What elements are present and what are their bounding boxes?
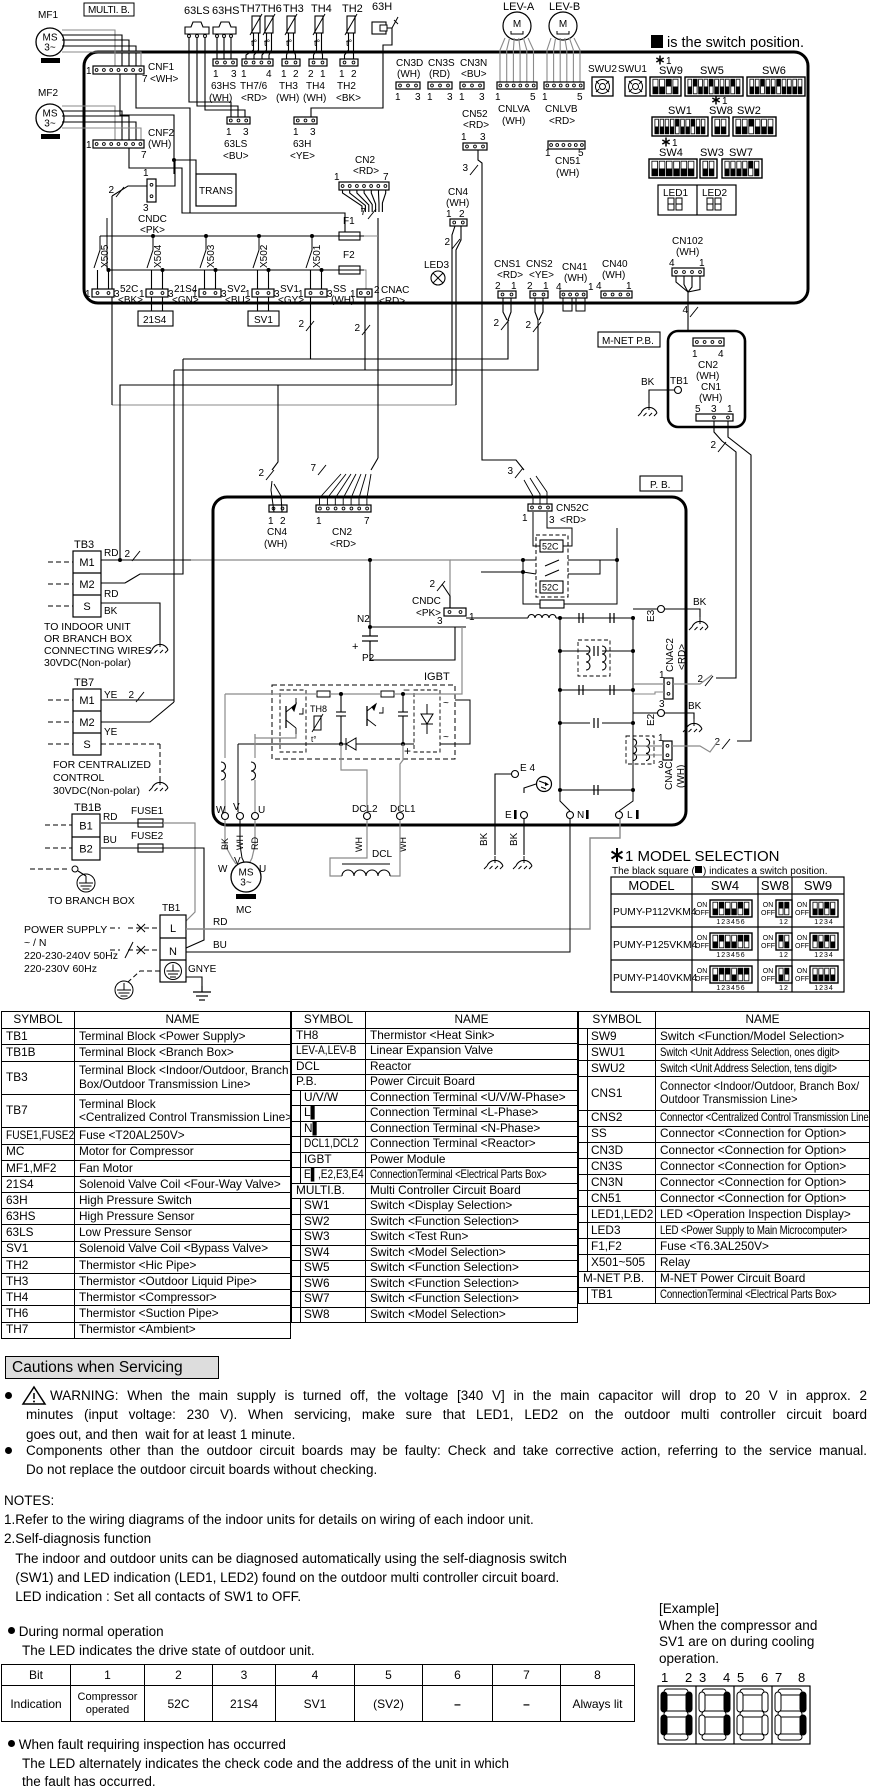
coil U [251, 762, 256, 780]
svg-text:L: L [170, 923, 176, 935]
wire TB7 vertical [173, 370, 175, 702]
svg-text:<RD>: <RD> [330, 539, 356, 550]
wire CNS1-a [503, 298, 507, 320]
IGBT resistor b [381, 691, 394, 697]
svg-text:2: 2 [493, 318, 499, 329]
svg-text:1: 1 [143, 168, 149, 179]
wire CN2t [371, 190, 375, 212]
svg-text:WH: WH [354, 837, 364, 852]
wire MF2-2 [62, 111, 122, 140]
wire MF1-4 [62, 46, 136, 66]
wire LEV-B [565, 38, 567, 82]
connector SS [305, 289, 327, 297]
svg-text:(WH): (WH) [276, 93, 299, 104]
svg-text:LED1: LED1 [663, 188, 688, 199]
svg-text:5: 5 [530, 92, 536, 103]
ground TB7 [149, 778, 168, 791]
svg-text:(WH): (WH) [676, 765, 687, 788]
svg-text:3: 3 [143, 203, 149, 214]
transformer TRANS [196, 174, 236, 206]
svg-text:1: 1 [461, 132, 467, 143]
svg-text:123456: 123456 [716, 952, 745, 959]
svg-text:1: 1 [427, 92, 433, 103]
connector TH3 (WH) [282, 59, 300, 66]
LED3 [431, 271, 445, 285]
example digit labels [661, 1670, 805, 1685]
wire thermistor [254, 33, 259, 59]
terminal block TB1B [72, 814, 100, 860]
wire CNS2 to TB7 [174, 320, 538, 370]
junction SV2 bus [214, 268, 218, 272]
wire LEV-A [500, 38, 505, 82]
svg-text:<RD>: <RD> [463, 120, 489, 131]
wire MF2-1 [62, 106, 115, 140]
svg-text:GNYE: GNYE [188, 964, 217, 975]
wire E2 left [633, 712, 657, 714]
terminal U [252, 813, 259, 820]
connector CNS2 [530, 291, 548, 298]
wire CNS2-a [535, 298, 538, 320]
connector 21S4 [146, 289, 168, 297]
wire count mark [722, 739, 730, 749]
svg-text:3: 3 [549, 515, 555, 526]
fan motor MF2 [36, 104, 64, 132]
ground E2 [683, 719, 702, 732]
connector 63H (YE) [294, 117, 317, 124]
wire count mark [690, 307, 698, 317]
DIP switch SW9 [650, 77, 681, 96]
svg-text:PUMY-P112VKM4: PUMY-P112VKM4 [613, 907, 697, 918]
svg-text:OFF: OFF [795, 976, 809, 983]
svg-text:OFF: OFF [795, 943, 809, 950]
svg-text:63H: 63H [372, 1, 392, 13]
wire CNDC down [111, 196, 113, 405]
svg-text:OR BRANCH BOX: OR BRANCH BOX [44, 633, 132, 645]
wire TB7 M2 [101, 702, 174, 722]
svg-text:~ / N: ~ / N [24, 937, 46, 949]
junction 52C bus [107, 268, 111, 272]
svg-text:1: 1 [339, 69, 345, 80]
svg-text:ON: ON [797, 935, 808, 942]
svg-text:SW1: SW1 [668, 105, 692, 117]
wire U link [255, 734, 296, 738]
wire U [254, 734, 256, 758]
svg-text:4: 4 [682, 305, 688, 316]
svg-text:BU: BU [213, 940, 227, 951]
capacitor C6 [594, 718, 598, 728]
svg-text:CNAC: CNAC [381, 285, 409, 296]
terminal EI [521, 812, 528, 819]
wire W2 [224, 780, 226, 812]
seven segment indicator [737, 1689, 768, 1740]
wire E4 gnd [495, 774, 511, 855]
svg-text:CN2: CN2 [698, 360, 718, 371]
svg-text:CNF1: CNF1 [148, 62, 175, 73]
fuse F2 [335, 266, 364, 274]
svg-text:1: 1 [511, 281, 517, 292]
junction SV1 bus [267, 268, 271, 272]
svg-text:B1: B1 [79, 821, 92, 833]
wire LEV-A [528, 38, 534, 82]
DIP switch model PUMY-P112VKM4 [776, 900, 792, 917]
wire SS down [310, 297, 312, 359]
relay bus lower right [363, 270, 366, 289]
svg-text:SW4: SW4 [659, 147, 683, 159]
connector CN102 [672, 268, 704, 276]
svg-text:~: ~ [443, 698, 449, 709]
seven segment digit [668, 198, 674, 210]
rotary switch SWU1 [625, 77, 646, 96]
connector TH4 (WH) [309, 59, 327, 66]
svg-text:3: 3 [310, 127, 316, 138]
bit table [1, 1664, 635, 1722]
svg-text:SWU1: SWU1 [618, 64, 647, 75]
svg-text:(WH): (WH) [264, 539, 287, 550]
svg-text:YE: YE [104, 727, 118, 738]
junction [631, 649, 635, 653]
wire U to MC [250, 820, 255, 862]
svg-text:YE: YE [104, 690, 118, 701]
ground TB3 [149, 640, 168, 653]
svg-text:1: 1 [661, 1670, 668, 1685]
svg-text:30VDC(Non-polar): 30VDC(Non-polar) [44, 657, 131, 669]
svg-text:1: 1 [350, 289, 356, 300]
junction [631, 788, 635, 792]
wire LEV-B [554, 38, 556, 82]
wire CNS1-b [508, 298, 511, 320]
svg-text:1: 1 [298, 289, 304, 300]
svg-text:5: 5 [737, 1670, 744, 1685]
wire DCL2 down [330, 820, 367, 876]
svg-text:CNS2: CNS2 [526, 259, 553, 270]
svg-text:123456: 123456 [716, 985, 745, 992]
svg-text:t°: t° [346, 38, 353, 48]
svg-text:<RD>: <RD> [677, 644, 688, 670]
board M-NET P.B. outline [668, 331, 745, 427]
junction [615, 558, 619, 562]
junction [339, 692, 343, 696]
svg-text:BK: BK [479, 832, 490, 846]
wire V [237, 744, 239, 758]
svg-text:1: 1 [139, 289, 145, 300]
connector CNLVA [497, 82, 537, 89]
wire relay to SV1 [257, 270, 259, 289]
svg-text:CN51: CN51 [555, 156, 581, 167]
TB3 dashes [48, 562, 73, 606]
wire CNAC1 a [633, 745, 663, 747]
wire count mark [266, 470, 274, 480]
junction [521, 570, 525, 574]
wire CN1-CNAC2 [714, 421, 736, 678]
TB1 gnd dash [128, 971, 160, 982]
wire CN2t [382, 190, 385, 212]
wire CN2t [343, 190, 363, 212]
junction [631, 688, 635, 692]
IGBT transistor 2 [367, 704, 383, 726]
thermistor TH6 symbol [263, 14, 275, 48]
svg-text:(WH): (WH) [696, 371, 719, 382]
svg-text:CN4: CN4 [267, 527, 287, 538]
junction [401, 742, 405, 746]
wire CN52 to CN52C [478, 150, 524, 470]
relay bus upper [100, 235, 339, 237]
junction [172, 158, 176, 162]
wire MF2-3 [62, 116, 129, 140]
svg-text:52C: 52C [542, 583, 559, 593]
svg-text:POWER SUPPLY: POWER SUPPLY [24, 924, 107, 936]
relay X505 [94, 236, 111, 268]
svg-text:S: S [83, 739, 90, 751]
svg-text:SV1: SV1 [254, 315, 273, 326]
svg-text:WH: WH [235, 835, 245, 850]
svg-text:TH7: TH7 [240, 3, 261, 15]
svg-text:2: 2 [293, 69, 299, 80]
svg-text:TH4: TH4 [306, 81, 325, 92]
svg-text:SWU2: SWU2 [588, 64, 617, 75]
wire bus to 21S4 [162, 270, 164, 289]
52C wiring [481, 512, 617, 604]
relay X504 [147, 236, 164, 268]
transformer T1 secondary [602, 646, 606, 670]
svg-text:2: 2 [354, 323, 360, 334]
connector CN3S [428, 82, 452, 89]
expansion valve motor LEV-A [503, 12, 531, 40]
connector CN2 M-NET [693, 338, 724, 346]
DIP switch model PUMY-P112VKM4 [710, 900, 752, 917]
svg-text:TH8: TH8 [310, 704, 327, 714]
relay bus upper right [363, 235, 378, 237]
wire N2 top [369, 560, 371, 620]
MF2 mount [41, 134, 60, 139]
svg-text:F1: F1 [343, 216, 355, 227]
svg-text:3~: 3~ [44, 119, 56, 130]
svg-text:2: 2 [351, 69, 357, 80]
svg-text:(WH): (WH) [148, 139, 171, 150]
connector 52C [92, 289, 114, 297]
relay X501 [306, 236, 323, 268]
svg-text:2: 2 [429, 579, 435, 590]
label box SV1 [248, 311, 279, 326]
svg-text:MF2: MF2 [38, 88, 58, 99]
connector CNS1 [498, 291, 516, 298]
svg-text:3: 3 [699, 1670, 706, 1685]
wire TB3 S [101, 603, 160, 640]
example display frame [658, 1686, 810, 1744]
DIP switch model PUMY-P140VKM4 [810, 966, 838, 983]
svg-text:3~: 3~ [44, 43, 56, 54]
CN2 PB fan wire [351, 474, 361, 505]
ground M-NET [638, 403, 657, 416]
wire count mark [515, 468, 523, 478]
connector CNLVB [544, 82, 584, 89]
junction [558, 721, 562, 725]
fuse FUSE2 [134, 844, 167, 852]
wire LEV-B [559, 38, 561, 82]
terminal block TB7 [73, 689, 101, 755]
wire N2 up [369, 620, 371, 627]
wire CNAC2 a [633, 683, 664, 685]
svg-text:OFF: OFF [695, 910, 709, 917]
terminal W [222, 813, 229, 820]
MF1 mount [41, 58, 60, 63]
wire DC link 2 [450, 559, 523, 561]
svg-text:is the switch position.: is the switch position. [667, 35, 804, 51]
svg-text:RD: RD [104, 589, 118, 600]
svg-text:TH2: TH2 [337, 81, 356, 92]
wire thermistor [246, 33, 254, 59]
junction [558, 788, 562, 792]
connector CNDC top [147, 179, 156, 202]
connector CNDC P.B. [444, 608, 466, 616]
svg-text:7: 7 [360, 207, 366, 218]
svg-text:1: 1 [446, 209, 452, 220]
wire CN2t [357, 190, 369, 212]
svg-text:1234: 1234 [814, 952, 834, 959]
svg-text:SW3: SW3 [700, 147, 724, 159]
svg-text:2: 2 [374, 285, 380, 296]
svg-text:<WH>: <WH> [150, 74, 179, 85]
wire MF2-4 [62, 122, 136, 140]
svg-text:(WH): (WH) [699, 393, 722, 404]
svg-text:CNDC: CNDC [138, 214, 167, 225]
CN2 PB fan wire [327, 474, 346, 505]
label box MULTI.B. [84, 3, 134, 16]
svg-text:<RD>: <RD> [241, 93, 267, 104]
junction [631, 616, 635, 620]
svg-text:2: 2 [128, 690, 134, 701]
svg-text:(WH): (WH) [446, 198, 469, 209]
node N2 [368, 625, 372, 629]
relay bus lower [107, 269, 339, 271]
wire V to MC [240, 820, 244, 862]
wire to CN2 PB [371, 458, 378, 470]
wire MF1-5 [62, 52, 141, 66]
svg-text:M: M [513, 19, 521, 30]
wire count mark [318, 465, 326, 475]
wire DCL2 up [341, 744, 367, 812]
transformer T1 primary [586, 646, 590, 670]
CN2 PB fan wire [335, 474, 351, 505]
svg-text:SW6: SW6 [762, 65, 786, 77]
svg-text:SW4: SW4 [711, 878, 739, 893]
connector CNAC2 [664, 678, 673, 699]
svg-text:3: 3 [415, 92, 421, 103]
connector CN3D [396, 82, 420, 89]
wire E2 gnd [665, 713, 694, 719]
wire thermistor [262, 33, 267, 59]
svg-text:2: 2 [308, 69, 314, 80]
svg-text:E3: E3 [646, 609, 657, 622]
wire CNS2-b [539, 298, 543, 320]
wire LEV-A [523, 38, 526, 82]
svg-text:TB1B: TB1B [74, 802, 102, 814]
wire CN2t [364, 190, 372, 212]
junction 21S4 bus [161, 268, 165, 272]
TB7 dashes [48, 700, 160, 778]
IGBT resistor a [317, 691, 330, 697]
svg-text:CN3D: CN3D [396, 58, 423, 69]
DIP switch SW2 [733, 117, 776, 136]
svg-text:8: 8 [798, 1670, 805, 1685]
svg-text:1: 1 [545, 148, 551, 159]
svg-text:2: 2 [495, 281, 501, 292]
wire thermistor [345, 33, 349, 59]
svg-text:1: 1 [86, 140, 92, 151]
wire P2 [370, 627, 455, 660]
fuse F1 [335, 232, 364, 240]
svg-text:1: 1 [727, 404, 733, 415]
terminal E3 [658, 606, 665, 613]
svg-text:FUSE1: FUSE1 [131, 806, 164, 817]
svg-text:B2: B2 [79, 844, 92, 856]
connector CN51 [548, 141, 585, 149]
svg-text:CN40: CN40 [602, 259, 628, 270]
switch position note [651, 35, 804, 51]
connector 63HS (WH) [213, 59, 237, 66]
connector 63LS (BU) [227, 117, 250, 124]
svg-text:The black square (: The black square ( [612, 866, 695, 877]
svg-text:4: 4 [718, 349, 724, 360]
svg-text:1: 1 [241, 69, 247, 80]
svg-text:~: ~ [443, 732, 449, 743]
junction [401, 692, 405, 696]
svg-text:(WH): (WH) [502, 116, 525, 127]
wire V2 [237, 758, 239, 812]
svg-text:2: 2 [685, 1670, 692, 1685]
svg-text:3: 3 [480, 132, 486, 143]
wire B2 [101, 847, 138, 849]
wire N2 bus [370, 626, 466, 628]
wire relay to 21S4 [151, 270, 153, 289]
svg-text:PUMY-P125VKM4: PUMY-P125VKM4 [613, 940, 698, 951]
wire MF1-1 [62, 30, 115, 66]
svg-text:3: 3 [447, 92, 453, 103]
wire bus to SS [321, 270, 323, 289]
svg-text:SV2: SV2 [227, 284, 246, 295]
relay X502 [253, 236, 270, 268]
svg-text:CN2: CN2 [332, 527, 352, 538]
DIP switch model PUMY-P125VKM4 [710, 933, 752, 950]
svg-text:3: 3 [659, 699, 665, 710]
svg-text:CNLVA: CNLVA [498, 104, 530, 115]
svg-text:RD: RD [213, 917, 227, 928]
transformer T2 primary [633, 739, 637, 761]
wire count mark [437, 581, 445, 591]
svg-text:(WH): (WH) [556, 168, 579, 179]
model selection subtitle [612, 866, 828, 877]
wire CNDC slash [442, 584, 450, 608]
svg-text:4: 4 [596, 281, 602, 292]
wire CN102 [676, 276, 688, 292]
wire count mark [718, 442, 726, 452]
svg-text:t°: t° [286, 38, 293, 48]
wire TB3 M2 [101, 359, 183, 583]
power module IGBT [272, 685, 455, 759]
svg-text:F2: F2 [343, 250, 355, 261]
wire 63LS [197, 38, 238, 117]
svg-text:2: 2 [258, 468, 264, 479]
svg-text:<RD>: <RD> [353, 166, 379, 177]
wire LEV-B [574, 38, 580, 82]
pressure sensor 63LS [185, 22, 209, 38]
wire TB3 branch up [120, 385, 452, 558]
svg-text:2: 2 [280, 516, 286, 527]
wire thermistor [287, 33, 289, 59]
junction [558, 616, 562, 620]
IGBT diode [332, 738, 368, 750]
svg-text:TB1: TB1 [670, 376, 689, 387]
svg-text:1: 1 [692, 349, 698, 360]
